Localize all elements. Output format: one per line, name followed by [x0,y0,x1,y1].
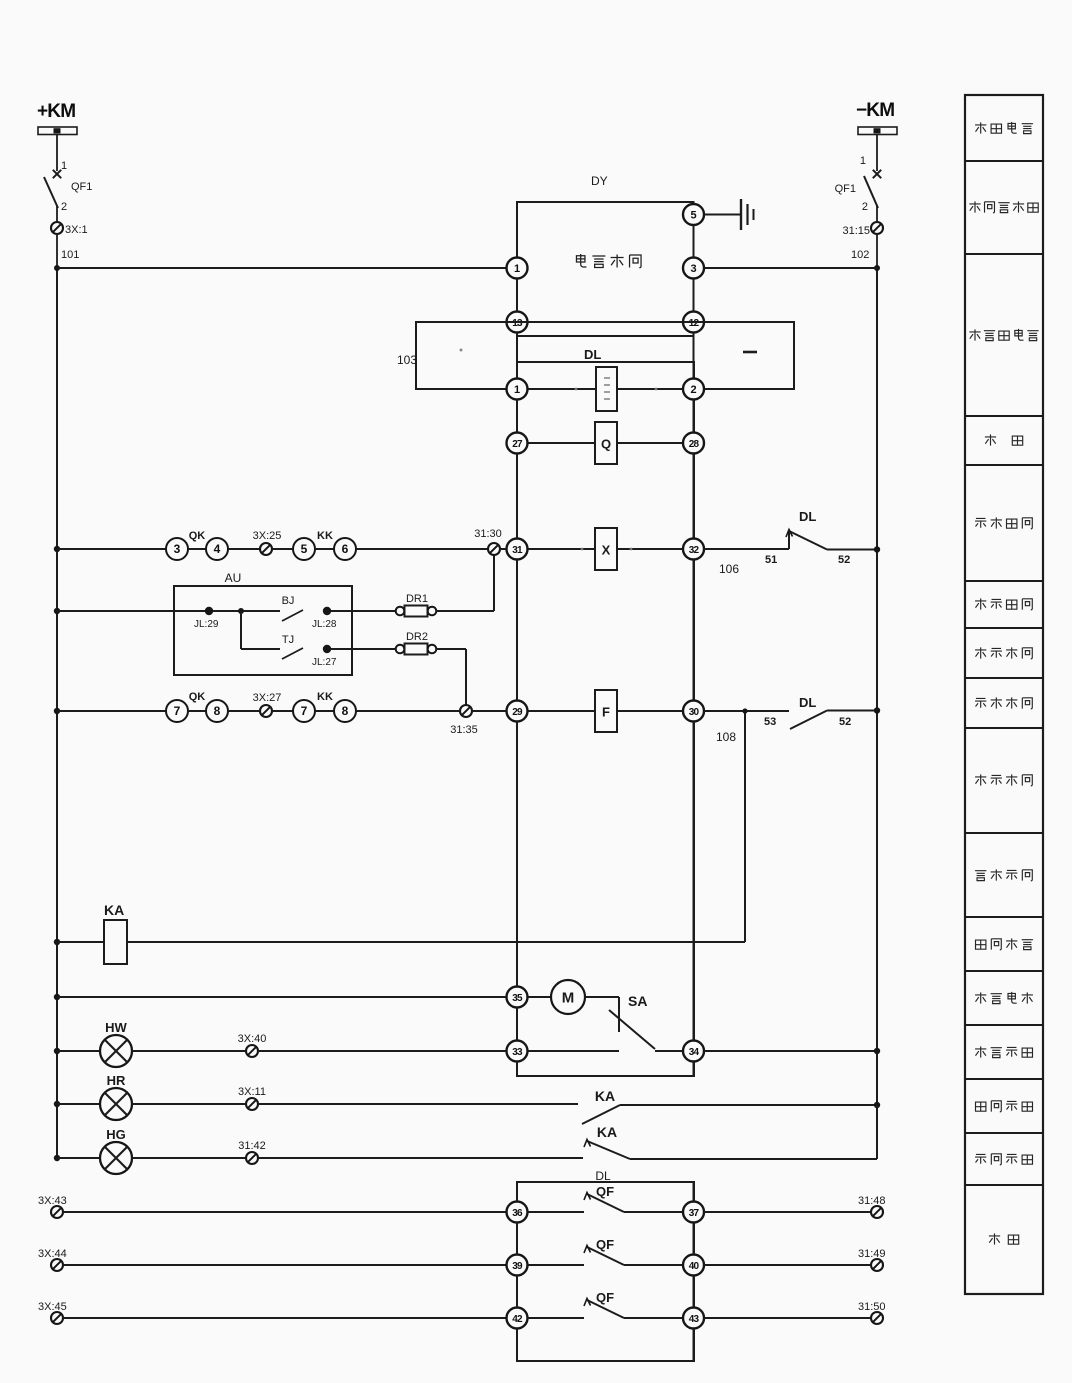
terminal 3X:40 [238,1033,267,1057]
terminal 31:42 [238,1140,266,1164]
wire pin1 to pin27 [516,400,518,433]
net label 102 [851,249,869,261]
label HG [106,1127,126,1142]
svg-text:4: 4 [214,542,221,556]
svg-text:X: X [602,543,611,558]
svg-text:36: 36 [512,1208,523,1219]
device pin 29 [507,701,528,722]
wire KA contact to right bus corner [630,1158,877,1160]
contact point JL:28 [312,607,337,630]
contact circle 8 [206,700,228,722]
svg-text:28: 28 [689,439,700,450]
svg-text:30: 30 [689,707,700,718]
label QF1 [835,183,856,195]
table row label 保护合闸 [975,598,1032,609]
table row label 保护跳闸 [975,774,1032,785]
svg-text:52: 52 [839,716,851,728]
device pin 42 [507,1308,528,1329]
wire pin 37 to terminal 31:48 [704,1211,871,1213]
svg-text:QF1: QF1 [835,183,856,195]
relay box F [595,690,617,732]
power module box [517,202,694,336]
terminal 3X:27 [253,692,282,717]
svg-text:QF: QF [596,1290,614,1305]
wire pin31 to pin29 [516,560,518,701]
wire pin34 to right bus [704,1048,880,1054]
fuse FU between pin1 and pin2 [596,367,617,411]
label BJ [282,595,295,607]
switch TJ blade [282,648,303,659]
wire pin13 to pin1 col [516,279,518,312]
label QF [596,1290,614,1305]
svg-text:1: 1 [61,160,67,172]
wire pin27 to pin31 [516,454,518,539]
label DY [591,174,608,188]
wire DR1 up to terminal 31:30 [436,556,494,612]
svg-text:2: 2 [690,384,696,396]
svg-text:29: 29 [512,707,523,718]
svg-text:6: 6 [342,542,349,556]
label 52 (upper) [838,554,850,566]
svg-text:7: 7 [174,704,181,718]
aux box left edge pins link [516,1223,518,1308]
wire pin 40 to terminal 31:49 [704,1264,871,1266]
svg-text:HW: HW [105,1020,127,1035]
wire pin 3 to right bus [704,267,877,269]
svg-text:1: 1 [514,263,520,275]
svg-text:JL:27: JL:27 [312,657,337,668]
svg-text:HR: HR [107,1073,126,1088]
pin 13 [507,312,528,333]
svg-text:QK: QK [189,530,206,542]
relay box X [595,528,617,570]
wire HW to terminal [132,1050,246,1052]
svg-text:51: 51 [765,554,777,566]
wire [56,234,58,268]
node on left bus row 31 [54,546,60,552]
wire pins 27-28 row [528,442,684,444]
svg-text:KA: KA [597,1124,617,1140]
table row label 储能指示 [975,1046,1032,1057]
wire pin12 down to pin 2 of device [693,333,695,379]
speck [581,548,633,551]
wire bus to HW lamp [57,1050,100,1052]
svg-text:31:42: 31:42 [238,1140,266,1152]
device pin 27 [507,433,528,454]
svg-text:42: 42 [512,1314,523,1325]
ground [741,199,754,230]
bus label -KM [856,100,894,121]
svg-text:106: 106 [719,562,739,576]
wire pin5 to ground [704,214,741,216]
svg-text:3X:43: 3X:43 [38,1195,67,1207]
contact circle 6 [334,538,356,560]
wire DL to right bus [827,710,877,712]
svg-text:F: F [602,705,610,720]
svg-text:103: 103 [397,353,417,367]
device pin 43 [683,1308,704,1329]
wire HG to terminal [132,1157,246,1159]
wire to junction [213,610,280,612]
switch QF aux contact [584,1246,624,1266]
label QF [596,1184,614,1199]
contact circle 5 [293,538,315,560]
svg-text:3X:40: 3X:40 [238,1033,267,1045]
node right bus HR row [874,1102,880,1108]
table row label 合闸指示 [975,1101,1032,1112]
wire pin3 to pin5 col [693,225,695,312]
device pin 30 [683,701,704,722]
svg-text:JL:29: JL:29 [194,619,219,630]
aux box top edges [517,1182,694,1202]
label KK (lower) [317,691,333,703]
wire QF contact to pin 40 [624,1264,683,1266]
wire pin 39 to QF contact [528,1264,585,1266]
terminal 31:48 [858,1195,886,1218]
svg-text:3: 3 [690,263,696,275]
wire pin33 to SA [528,1050,620,1052]
label QK [189,530,206,542]
left bus 101 [54,265,60,1159]
svg-text:3X:1: 3X:1 [65,224,88,236]
svg-text:QF1: QF1 [71,181,92,193]
svg-text:M: M [562,990,575,1007]
terminal 3X:45 [38,1301,67,1324]
wire bus to KA coil [57,941,104,943]
wire pins 29-30 row [528,710,684,712]
svg-text:31:50: 31:50 [858,1301,886,1313]
svg-text:8: 8 [342,704,349,718]
wire 6 to terminal 31:30 [356,548,488,550]
contact circle 7b [293,700,315,722]
wire BJ contact to DR1 [331,610,396,612]
label HR [107,1073,126,1088]
wire DL to right bus [827,549,877,551]
svg-text:3X:11: 3X:11 [238,1086,266,1098]
label DL above aux box [595,1169,611,1183]
wire terminal to pin 39 [63,1264,507,1266]
svg-text:13: 13 [512,318,523,329]
device pin 33 [507,1041,528,1062]
device pin 37 [683,1202,704,1223]
lamp HW [100,1035,132,1067]
pin number 2 [61,201,67,213]
wire pins 31-32 row [528,548,684,550]
wire TJ contact to DR2 [331,648,396,650]
relay coil KA [104,920,127,964]
wire pin13 down to pin 1 of device [516,333,518,379]
terminal strip -KM [858,127,897,135]
svg-text:3X:27: 3X:27 [253,692,282,704]
wire [876,206,878,222]
terminal 31:15 [842,222,883,237]
label DL inside box 103 [584,347,601,362]
switch KA (HG row) [584,1140,630,1160]
speck [460,349,463,352]
pin 3 [683,258,704,279]
svg-text:31:35: 31:35 [450,724,478,736]
svg-text:1: 1 [860,155,866,167]
contact circle 7 [166,700,188,722]
table row label 手动跳闸 [975,697,1032,708]
terminal 3X:44 [38,1248,67,1271]
table row label 储能电机 [975,992,1033,1004]
contact circle 3 [166,538,188,560]
svg-text:8: 8 [214,704,221,718]
device pin 28 [683,433,704,454]
wire terminal to pin 29 [472,710,507,712]
wire bus to HG lamp [57,1157,100,1159]
table row label 分闸指示 [975,1154,1032,1165]
svg-text:5: 5 [301,542,308,556]
label KA coil [104,902,124,918]
wire top left bus to pin 1 [57,267,508,269]
main box bottom edge wires [517,1062,694,1077]
svg-text:3X:45: 3X:45 [38,1301,67,1313]
svg-text:31:30: 31:30 [474,528,502,540]
wire 8b to terminal 31:35 [356,710,460,712]
svg-text:40: 40 [689,1261,700,1272]
label DR1 [406,593,428,605]
svg-text:3: 3 [174,542,181,556]
table row label 控制电源 [975,122,1033,134]
svg-text:1: 1 [514,384,520,396]
wire [876,234,878,268]
svg-text:39: 39 [512,1261,523,1272]
resistor DR2 [396,644,437,655]
svg-text:102: 102 [851,249,869,261]
wire [56,206,58,222]
contact point JL:29 [194,607,219,630]
label 52 (lower) [839,716,851,728]
speck [575,388,658,391]
table row label 保护跳闸 [975,647,1032,658]
svg-text:QF: QF [596,1237,614,1252]
switch QF aux contact [584,1299,624,1319]
wire terminal to 7b [272,710,293,712]
terminal 3X:25 [253,530,282,555]
label QF1 [71,181,92,193]
wire terminal to pin 36 [63,1211,507,1213]
lamp HG [100,1142,132,1174]
label 51 [765,554,777,566]
device pin 39 [507,1255,528,1276]
wire pin 43 to terminal 31:50 [704,1317,871,1319]
label HW [105,1020,127,1035]
svg-text:101: 101 [61,249,79,261]
contact circle 8b [334,700,356,722]
device pin 31 [507,539,528,560]
svg-text:37: 37 [689,1208,700,1219]
wire motor to SA upper contact [585,997,619,1032]
wire pin 42 to QF contact [528,1317,585,1319]
wire bus to QK contact 3 [57,548,166,550]
table row label 欠压 [985,434,1023,445]
label QK (lower) [189,691,206,703]
svg-text:JL:28: JL:28 [312,619,337,630]
svg-text:BJ: BJ [282,595,295,607]
svg-text:TJ: TJ [282,634,294,646]
pin number 1 [860,155,866,167]
terminal 31:35 [450,705,478,736]
wire 7-8 [188,710,206,712]
svg-text:QK: QK [189,691,206,703]
table row label 手动合闸 [975,517,1032,528]
device pin 1 [507,379,528,400]
right bus lower segment [876,1105,878,1159]
wire pin 36 to QF contact [528,1211,585,1213]
wire riser to row 108 [742,708,747,942]
table row label 中间扩展 [975,938,1032,949]
pin number 2 [862,201,868,213]
wire pin30 to pin34 [693,722,695,1041]
breaker QF1 (right pole) [864,170,881,208]
wire pins 1-2 row [528,388,684,390]
bus label +KM [37,101,75,122]
wire [56,135,58,172]
svg-text:35: 35 [512,993,523,1004]
svg-text:AU: AU [225,571,242,585]
wire [876,135,878,172]
table row label 微型断路器 [969,201,1038,212]
node on left bus row 29 [54,708,60,714]
wire KA coil to riser [127,941,745,943]
node right bus row 106 [874,546,880,552]
svg-text:DL: DL [584,347,601,362]
pin 1 [507,258,528,279]
table row label 断路器电源 [969,329,1038,341]
label KK [317,530,333,542]
node right bus row 108 [874,707,880,713]
node junction in AU [238,608,244,614]
label DR2 [406,631,428,643]
svg-text:31:49: 31:49 [858,1248,886,1260]
terminal 31:50 [858,1301,886,1324]
node on left bus HW row [54,1048,60,1054]
resistor DR1 [396,606,437,617]
wire bus into AU box [57,610,205,612]
wire terminal to pin 42 [63,1317,507,1319]
svg-text:2: 2 [862,201,868,213]
aux contact box DL [517,1182,694,1361]
lamp HR [100,1088,132,1120]
table row label 遥控分闸 [975,869,1032,880]
wire pins 35 row to motor [528,996,552,998]
svg-text:3X:44: 3X:44 [38,1248,67,1260]
wire DR2 down to terminal 31:35 [436,649,466,705]
svg-text:KK: KK [317,530,333,542]
terminal 31:49 [858,1248,886,1271]
node on left bus HR row [54,1101,60,1107]
svg-text:52: 52 [838,554,850,566]
function table frame [965,95,1043,1294]
wire QF contact to pin 43 [624,1317,683,1319]
svg-text:DR2: DR2 [406,631,428,643]
wire SA to pin34 [655,1050,683,1052]
wire terminal to pin 31 [500,548,507,550]
svg-text:DL: DL [799,695,816,710]
wire pin32 to DL contact 51 [704,548,789,550]
label DL (lower) [799,695,816,710]
svg-text:43: 43 [689,1314,700,1325]
device pin 36 [507,1202,528,1223]
label DL (upper) [799,509,816,524]
svg-text:34: 34 [689,1047,700,1058]
label KA (upper contact) [595,1088,615,1104]
wire bus to QK contact 7 [57,710,166,712]
terminal 3X:11 [238,1086,266,1110]
right bus 102 [874,265,880,1106]
terminal 3X:43 [38,1195,67,1218]
switch SA blade [609,1010,655,1049]
label 108 [716,730,736,744]
label 53 [764,716,776,728]
wire terminal to KA contact [258,1103,578,1105]
aux box lower edges [517,1329,694,1362]
terminal 3X:1 [51,222,88,236]
relay box Q [595,422,617,464]
svg-text:KA: KA [104,902,124,918]
wire QF contact to pin 37 [624,1211,683,1213]
svg-text:HG: HG [106,1127,126,1142]
svg-text:KK: KK [317,691,333,703]
net label 101 [61,249,79,261]
label AU [225,571,242,585]
switch DL 53-52 [790,711,827,730]
wire HR to terminal [132,1103,246,1105]
svg-text:KA: KA [595,1088,615,1104]
svg-text:108: 108 [716,730,736,744]
motor M [551,980,585,1014]
terminal 31:30 [474,528,502,555]
svg-text:12: 12 [689,318,700,329]
wire terminal to KA contact 2 [258,1157,583,1159]
node on left bus KA row [54,939,60,945]
switch BJ blade [282,610,303,621]
pin number 1 [61,160,67,172]
svg-text:−KM: −KM [856,100,894,121]
label TJ [282,634,294,646]
wire terminal to 5 [272,548,293,550]
terminal strip +KM [38,127,77,135]
svg-text:31:48: 31:48 [858,1195,886,1207]
device pin 35 [507,987,528,1008]
device pin 34 [683,1041,704,1062]
wire pin30 to DL contact 53 [704,710,789,712]
wire pin29 to pin35 [516,722,518,987]
svg-text:QF: QF [596,1184,614,1199]
main device box [517,362,694,1076]
wire pin35 to pin33 [516,1008,518,1041]
label KA (lower contact) [597,1124,617,1140]
AU box outline [174,586,352,675]
table row label 备用 [989,1233,1019,1244]
node on left bus motor row [54,994,60,1000]
wire 7b-8b [315,710,334,712]
wire junction down to TJ branch [241,611,280,649]
pin 5 [683,204,704,225]
node on left bus HG row [54,1155,60,1161]
svg-text:DR1: DR1 [406,593,428,605]
wire bus to pin 35 [57,996,507,998]
wire terminal to pin 33 [258,1050,507,1052]
svg-text:27: 27 [512,439,523,450]
breaker QF1 (left pole) [44,170,61,208]
contact point JL:27 [312,645,337,668]
device pin 32 [683,539,704,560]
svg-text:32: 32 [689,545,700,556]
label 103 [397,353,417,367]
